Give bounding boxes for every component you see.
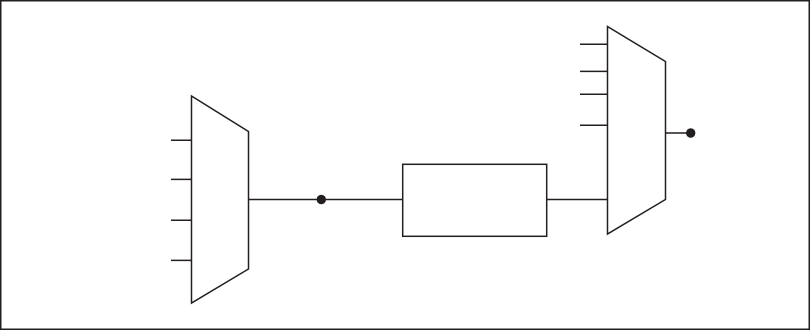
block U3 bbox=[403, 164, 547, 236]
mux U1 bbox=[192, 96, 249, 303]
wire U2 output bbox=[666, 132, 691, 134]
pin U1 input 3 bbox=[171, 219, 192, 221]
node junction on U1 output wire bbox=[317, 195, 326, 204]
wire U1 output to block U3 bbox=[249, 199, 403, 201]
pin U1 input 4 bbox=[171, 259, 192, 261]
pin U2 input 1 bbox=[580, 43, 608, 45]
node output terminal dot bbox=[686, 128, 695, 137]
mux U2 bbox=[608, 27, 666, 235]
pin U2 input 2 bbox=[580, 70, 608, 72]
pin U2 input 3 bbox=[580, 93, 608, 95]
pin U1 input 1 bbox=[171, 139, 192, 141]
pin U2 input 4 bbox=[580, 124, 608, 126]
wire block U3 output to mux U2 bbox=[547, 199, 608, 201]
pin U1 input 2 bbox=[171, 178, 192, 180]
